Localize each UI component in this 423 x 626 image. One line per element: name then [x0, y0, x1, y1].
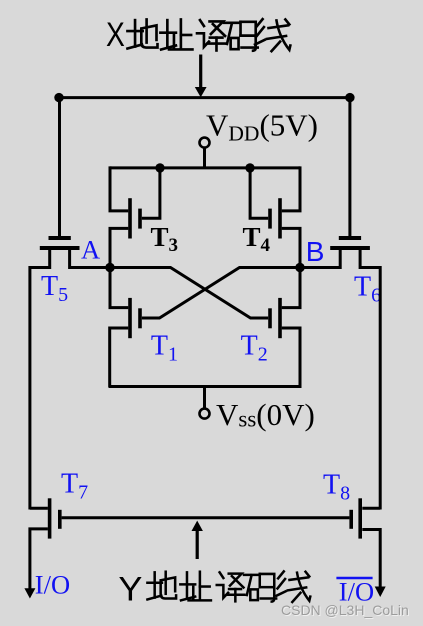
T8 gate bar	[349, 510, 353, 529]
T5 drain wire to node A	[70, 250, 110, 268]
transistor T7	[24, 498, 61, 598]
junction dot T3 gate on VDD rail	[155, 163, 164, 172]
T4 drain wire	[282, 166, 300, 211]
svg-text:A: A	[81, 235, 100, 265]
node A dot	[105, 263, 114, 272]
wire VDD rail	[110, 166, 300, 169]
transistor T2	[268, 268, 300, 388]
VDD terminal circle	[200, 138, 210, 148]
wire X word line	[59, 96, 350, 99]
T3 drain wire	[110, 166, 128, 211]
wire right bit line rail	[379, 266, 382, 510]
VSS terminal circle	[200, 409, 210, 419]
svg-text:Y: Y	[118, 570, 142, 608]
arrow from X decode text down to word line	[195, 55, 207, 98]
wire cross-couple A to T2 gate	[110, 268, 268, 319]
node dot right word line	[345, 93, 354, 102]
T3 gate bar	[138, 209, 142, 229]
T5 gate bar	[49, 236, 71, 240]
T7 source arrowhead to I/O	[24, 588, 35, 598]
T4 gate bar	[268, 209, 272, 229]
svg-text:Vss(0V): Vss(0V)	[216, 397, 315, 432]
T8 channel bar	[358, 498, 362, 538]
T6 drain wire to node B	[300, 250, 340, 268]
wire VDD stub	[203, 148, 206, 169]
node dot left word line	[54, 93, 63, 102]
T3 channel bar	[128, 198, 132, 238]
T7 drain wire	[30, 507, 48, 510]
T6 source wire to right rail	[360, 250, 380, 268]
T2 source wire	[282, 328, 300, 387]
label X address decode line (X地址译码线)	[106, 16, 290, 54]
T5 channel bar	[40, 246, 80, 250]
arrow from Y decode text up to Y select line	[192, 521, 203, 559]
T7 channel bar	[48, 498, 52, 538]
T3 source wire	[110, 228, 128, 268]
node B dot	[295, 263, 304, 272]
wire T6 gate stub	[348, 98, 351, 236]
T1 gate bar	[138, 308, 142, 328]
wire VSS rail	[109, 385, 302, 388]
transistor T8	[349, 498, 385, 597]
label Y address decode line (Y地址译码线)	[118, 570, 310, 608]
transistor T1	[110, 268, 142, 388]
transistor T6	[300, 236, 380, 268]
T8 source wire	[362, 530, 380, 587]
T2 gate bar	[268, 308, 272, 328]
T6 gate bar	[339, 236, 361, 240]
label I/O-bar	[336, 577, 374, 607]
svg-text:CSDN @L3H_CoLin: CSDN @L3H_CoLin	[281, 602, 409, 618]
T6 channel bar	[330, 246, 370, 250]
svg-text:I/O: I/O	[35, 570, 70, 600]
T8 source arrowhead to I/O-bar	[375, 587, 386, 598]
svg-text:X: X	[106, 16, 125, 54]
transistor T3	[110, 166, 160, 268]
junction dot T4 gate on VDD rail	[245, 163, 254, 172]
wire T5 gate stub	[58, 98, 61, 236]
T1 channel bar	[128, 298, 132, 338]
svg-text:B: B	[306, 236, 325, 267]
wire VSS stub	[203, 387, 206, 410]
T7 source wire	[30, 529, 48, 589]
T7 gate bar	[58, 510, 62, 529]
wire cross-couple B to T1 gate	[142, 268, 300, 319]
T4 gate wire	[250, 168, 268, 218]
wire Y select line	[62, 516, 350, 519]
T5 source wire to left rail	[30, 250, 50, 268]
T1 source wire	[110, 328, 129, 387]
transistor T5	[30, 236, 110, 268]
T8 drain wire	[362, 507, 380, 510]
T2 channel bar	[278, 298, 282, 338]
T4 channel bar	[278, 198, 282, 238]
wire left bit line rail	[28, 266, 31, 510]
T4 source wire	[282, 228, 300, 268]
T1 drain wire	[110, 268, 128, 308]
T3 gate wire	[142, 168, 160, 218]
transistor T4	[250, 166, 300, 268]
svg-text:VDD(5V): VDD(5V)	[206, 108, 318, 146]
T2 drain wire	[282, 268, 300, 308]
